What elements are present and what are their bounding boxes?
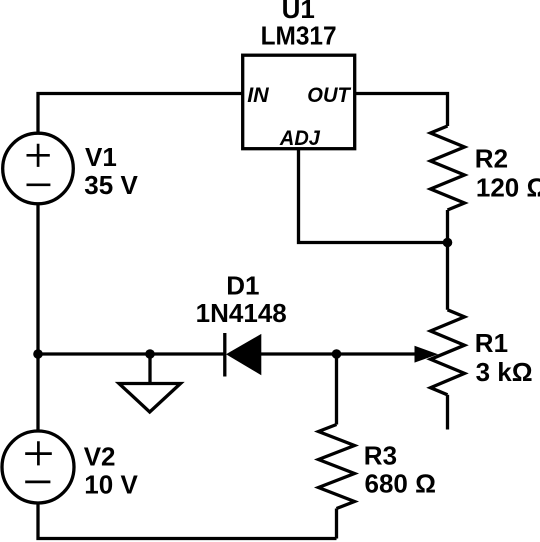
wire: diode anode to node C	[261, 352, 337, 355]
svg-text:OUT: OUT	[307, 83, 351, 107]
svg-text:LM317: LM317	[261, 20, 337, 50]
junction node C dot	[332, 349, 342, 359]
V1 plus sign	[27, 144, 50, 167]
regulator U1 body	[243, 55, 355, 149]
diode D1 arrow body	[226, 334, 261, 375]
voltage source V1 circle	[3, 133, 74, 204]
svg-text:ADJ: ADJ	[279, 126, 321, 150]
wire: node C to wiper arrow	[337, 352, 418, 355]
potentiometer wiper arrowhead	[415, 346, 439, 363]
svg-text:IN: IN	[247, 83, 269, 107]
svg-text:10 V: 10 V	[84, 470, 138, 500]
resistor R3 zigzag	[319, 425, 355, 509]
V2 plus sign	[25, 441, 52, 465]
ground stub wire	[148, 354, 151, 384]
wire: node B to R1 top	[446, 243, 449, 310]
diode D1 cathode bar	[223, 333, 226, 377]
junction node B dot	[443, 238, 453, 248]
wire: ADJ pin down and right to node B	[299, 149, 448, 243]
svg-text:680 Ω: 680 Ω	[365, 468, 436, 498]
svg-text:R3: R3	[364, 440, 397, 470]
svg-text:1N4148: 1N4148	[196, 298, 287, 328]
wire: R2 bottom to node B	[446, 210, 449, 243]
wire: node A to ground node	[38, 352, 150, 355]
wire: node C down to R3 top	[335, 354, 338, 425]
wire: R3 bottom to bottom rail	[335, 509, 338, 539]
ground symbol triangle	[119, 384, 181, 413]
wire: V1 bottom to node A	[36, 204, 39, 355]
svg-text:3 kΩ: 3 kΩ	[476, 357, 533, 387]
svg-text:35 V: 35 V	[84, 170, 138, 200]
svg-text:D1: D1	[226, 271, 259, 301]
V1 minus sign	[27, 183, 51, 186]
potentiometer R1 zigzag	[431, 310, 465, 395]
V2 minus sign	[25, 481, 50, 484]
svg-text:V1: V1	[85, 142, 117, 172]
voltage source V2 circle	[2, 431, 74, 503]
wire: V1 top to U1 IN pin	[38, 94, 243, 134]
junction ground node dot	[145, 349, 155, 359]
wire: node A to V2 top	[36, 354, 39, 431]
svg-text:R2: R2	[475, 143, 508, 173]
wire: ground node to diode cathode	[150, 352, 225, 355]
wire: R1 bottom stub	[446, 395, 449, 430]
resistor R2 zigzag	[431, 126, 465, 210]
svg-text:R1: R1	[475, 328, 508, 358]
wire: V2 bottom to bottom rail to R3	[38, 503, 337, 539]
junction node A dot	[33, 349, 43, 359]
svg-text:120 Ω: 120 Ω	[476, 173, 540, 203]
svg-text:V2: V2	[84, 441, 116, 471]
wire: U1 OUT pin to R2 top	[355, 94, 448, 127]
